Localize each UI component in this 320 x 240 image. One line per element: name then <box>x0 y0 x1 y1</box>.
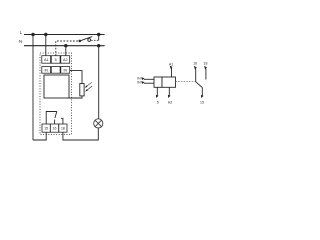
wire L rail <box>24 34 105 36</box>
terminal 15 box <box>42 124 50 132</box>
pin 18 wire <box>205 68 207 79</box>
svg-text:A1: A1 <box>44 58 49 62</box>
wire IN right to LDR top <box>70 71 82 84</box>
pin 15 wire <box>201 88 203 96</box>
internal block rectangle <box>44 75 69 98</box>
wire terminal 15 down to bottom wire <box>33 132 46 140</box>
wire N rail <box>24 45 105 47</box>
lamp E1 circle <box>94 119 103 128</box>
svg-text:15: 15 <box>200 100 204 104</box>
svg-text:16: 16 <box>53 127 57 131</box>
svg-text:16: 16 <box>193 61 197 65</box>
pin 15 arrow <box>201 95 204 98</box>
contact blade 16-15 <box>196 82 203 88</box>
wire riser from L to bottom wire <box>32 35 34 141</box>
svg-text:IN: IN <box>64 69 68 73</box>
relay contact arm from 15 <box>46 112 57 125</box>
svg-text:5: 5 <box>157 100 159 104</box>
pin 5 arrow <box>156 95 159 98</box>
pin A2 arrow <box>168 95 171 98</box>
wire riser N to terminal A2 <box>65 46 67 56</box>
wire IN lower to sensor block <box>144 82 155 84</box>
pin A1 wire <box>171 68 173 77</box>
wire LDR bottom to internal block <box>69 96 82 98</box>
svg-text:A2: A2 <box>63 58 68 62</box>
terminal IN right box <box>61 67 70 74</box>
device box dashed outline <box>40 53 72 135</box>
light arrow 2 <box>86 86 92 91</box>
pin A1 arrow <box>170 66 173 69</box>
wire IN upper to sensor block <box>144 78 155 80</box>
photoresistor B1 body <box>80 84 84 96</box>
svg-text:18: 18 <box>204 61 208 65</box>
pin 18 arrow <box>204 66 207 69</box>
svg-text:A2: A2 <box>168 100 172 104</box>
svg-text:IN: IN <box>44 69 48 73</box>
pin IN lower arrow <box>141 81 144 84</box>
pin 5 wire <box>156 87 158 95</box>
pin 16 arrow <box>194 66 197 69</box>
svg-text:L: L <box>20 30 23 35</box>
sensor block U1a <box>154 77 162 87</box>
wire N riser to lamp top <box>98 46 100 119</box>
junction dot N x98.7 <box>97 44 100 47</box>
terminal A2 box <box>61 56 70 64</box>
dashed link coil to contact <box>176 81 197 83</box>
svg-text:IN: IN <box>137 81 141 85</box>
terminal IN left box <box>42 67 51 74</box>
wire riser L to terminal A1 <box>45 35 47 56</box>
svg-text:N: N <box>19 39 22 44</box>
terminal middle blank box <box>51 67 60 74</box>
switch S pivot dot <box>79 40 82 43</box>
terminal 5 box <box>51 56 60 64</box>
svg-text:18: 18 <box>61 127 65 131</box>
junction dot L x33 <box>31 33 34 36</box>
wire dashed control from terminal 5 <box>56 41 79 56</box>
junction dot L x98.7 <box>97 33 100 36</box>
terminal 16 box <box>50 124 58 132</box>
relay contact blade <box>55 112 57 119</box>
wire riser L to switch <box>98 35 100 41</box>
wire terminal 18 down to lamp <box>63 128 98 140</box>
svg-text:A1: A1 <box>169 62 173 66</box>
junction dot L x46 <box>44 33 47 36</box>
contact 16 stub <box>54 120 56 125</box>
junction dot N x66 <box>64 44 67 47</box>
pin 16 wire <box>195 68 197 82</box>
pin A2 wire <box>168 87 170 95</box>
wire dashed switch to L riser <box>91 39 99 41</box>
terminal A1 box <box>42 56 51 64</box>
light arrow 1 <box>86 82 92 87</box>
svg-text:5: 5 <box>55 58 57 62</box>
switch S fixed contact circle <box>88 39 91 42</box>
switch S blade <box>80 37 92 41</box>
coil block U1b <box>162 77 176 87</box>
terminal 18 box <box>59 124 67 132</box>
contact 18 stub <box>61 118 63 124</box>
pin IN upper arrow <box>141 77 144 80</box>
svg-text:15: 15 <box>44 127 48 131</box>
lamp E1 cross <box>95 120 102 127</box>
